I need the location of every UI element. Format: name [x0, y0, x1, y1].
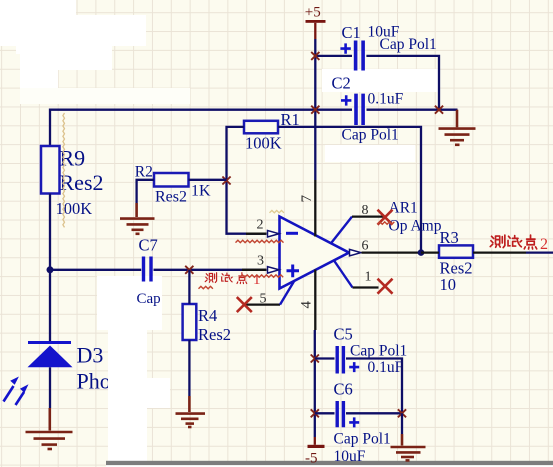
svg-text:Op Amp: Op Amp [389, 218, 442, 235]
svg-text:7: 7 [299, 195, 315, 203]
svg-text:R3: R3 [440, 228, 459, 247]
svg-text:C6: C6 [334, 380, 353, 399]
pin 3 (non-inverting input) [242, 269, 267, 271]
capacitor C5 [334, 325, 408, 377]
wire R2 left to ground [137, 180, 154, 203]
capacitor C7 [137, 236, 161, 308]
junction pin4 rail / C6 [311, 409, 319, 417]
svg-text:Cap Pol1: Cap Pol1 [334, 431, 391, 448]
wire net top from R9 to C2 [50, 110, 458, 146]
svg-text:0.1uF: 0.1uF [368, 91, 404, 108]
svg-text:10uF: 10uF [334, 448, 366, 465]
svg-text:10: 10 [440, 275, 457, 294]
pin 6 (output) [350, 249, 362, 256]
no-ERC marker pin 1 [378, 279, 393, 294]
wire C6 net [315, 412, 402, 414]
wavy underline pin2 net [236, 240, 284, 242]
junction R2/R1 net [222, 177, 230, 185]
svg-text:100K: 100K [56, 199, 93, 218]
svg-text:Res2: Res2 [198, 325, 231, 344]
junction at +5 rail / top net [311, 106, 319, 114]
resistor R9 [41, 146, 104, 219]
node A junction dot [47, 266, 54, 273]
output node junction dot [418, 249, 425, 256]
svg-text:D3: D3 [77, 343, 104, 368]
wire R1 left to pin2 [227, 127, 267, 234]
wire +5 rail down to pin7 [314, 39, 316, 180]
wire R1 right down to output node [278, 127, 421, 253]
capacitor C1 [340, 23, 436, 71]
faint squiggle near pin7 [270, 210, 284, 212]
pin 5 [244, 303, 280, 305]
svg-text:100K: 100K [245, 134, 282, 153]
pin 7 (V+) [314, 180, 316, 237]
capacitor C2 [332, 74, 404, 144]
ground bottom right [391, 434, 426, 460]
resistor R2 [135, 164, 211, 206]
ground top right [439, 110, 476, 145]
wire C5 net [315, 359, 402, 414]
test point 1 label [205, 273, 247, 284]
wire C7 right to pin3 [154, 269, 267, 271]
compile squiggle (tan) along R9 [63, 113, 65, 227]
svg-text:C1: C1 [342, 23, 361, 42]
wire R3 to test point 2 [473, 251, 526, 253]
ground under R4 [176, 396, 206, 427]
svg-text:2: 2 [540, 236, 548, 253]
svg-text:C7: C7 [139, 236, 158, 255]
svg-text:1K: 1K [191, 183, 211, 200]
wire R4 bottom to ground [188, 340, 190, 396]
pin 1 [334, 261, 353, 288]
svg-text:-5: -5 [305, 451, 318, 467]
wavy underline pin8 [378, 222, 395, 224]
no-ERC marker pin 5 [237, 297, 252, 312]
junction at C1 right / top net [435, 106, 443, 114]
wire R9 bottom to node A [49, 194, 51, 270]
junction at +5/C1 [311, 52, 319, 60]
photodiode D3 [4, 341, 117, 405]
wire D3 to ground [49, 367, 51, 408]
svg-text:C2: C2 [332, 74, 351, 93]
pin 4 (V-) [314, 270, 316, 331]
ground under D3 [26, 408, 73, 449]
svg-text:Cap Pol1: Cap Pol1 [350, 343, 407, 360]
wire node A down to D3 [49, 270, 51, 341]
wire node A to C7 [50, 269, 141, 271]
svg-text:0.1uF: 0.1uF [368, 359, 404, 376]
svg-text:6: 6 [362, 239, 369, 254]
svg-text:R4: R4 [198, 306, 217, 325]
pin 8 [331, 217, 352, 244]
svg-text:8: 8 [362, 203, 369, 218]
wire pin4 rail down to -5 [314, 330, 316, 437]
power -5 [305, 437, 325, 467]
svg-text:1: 1 [365, 270, 372, 285]
resistor R4 [183, 304, 231, 344]
wavy underline pin3 net [240, 275, 283, 277]
svg-text:Res2: Res2 [155, 189, 187, 206]
wire C1 branch [315, 56, 439, 110]
test point 2 label [490, 235, 536, 249]
svg-text:AR1: AR1 [389, 200, 418, 217]
pin 2 (inverting input) [246, 233, 267, 235]
no-ERC marker pin 8 [378, 210, 393, 225]
svg-text:5: 5 [260, 292, 267, 307]
svg-text:Cap Pol1: Cap Pol1 [380, 36, 437, 53]
svg-text:2: 2 [257, 218, 264, 233]
junction C7/R4 [185, 266, 193, 274]
svg-text:Cap: Cap [137, 291, 161, 307]
ground under R2 [120, 203, 155, 234]
svg-text:Cap Pol1: Cap Pol1 [342, 127, 399, 144]
resistor R1 [244, 110, 300, 153]
svg-text:C5: C5 [334, 325, 353, 344]
op-amp AR1 [280, 200, 442, 289]
svg-text:+5: +5 [305, 5, 321, 21]
capacitor C6 [334, 380, 391, 466]
svg-text:R2: R2 [135, 164, 153, 181]
svg-text:4: 4 [299, 301, 315, 309]
wavy mark under test point 1 [199, 286, 213, 288]
svg-text:3: 3 [257, 254, 264, 269]
power +5 [305, 5, 326, 40]
wire C6 net to ground [401, 413, 403, 434]
wire R4 top [188, 270, 190, 304]
svg-text:Res2: Res2 [60, 170, 104, 195]
junction pin4 rail / C5 [311, 355, 319, 363]
resistor R3 [439, 228, 473, 294]
wire R2 right to junction [189, 179, 227, 181]
wire output node to R3 [421, 251, 439, 253]
junction C6 right [398, 409, 406, 417]
